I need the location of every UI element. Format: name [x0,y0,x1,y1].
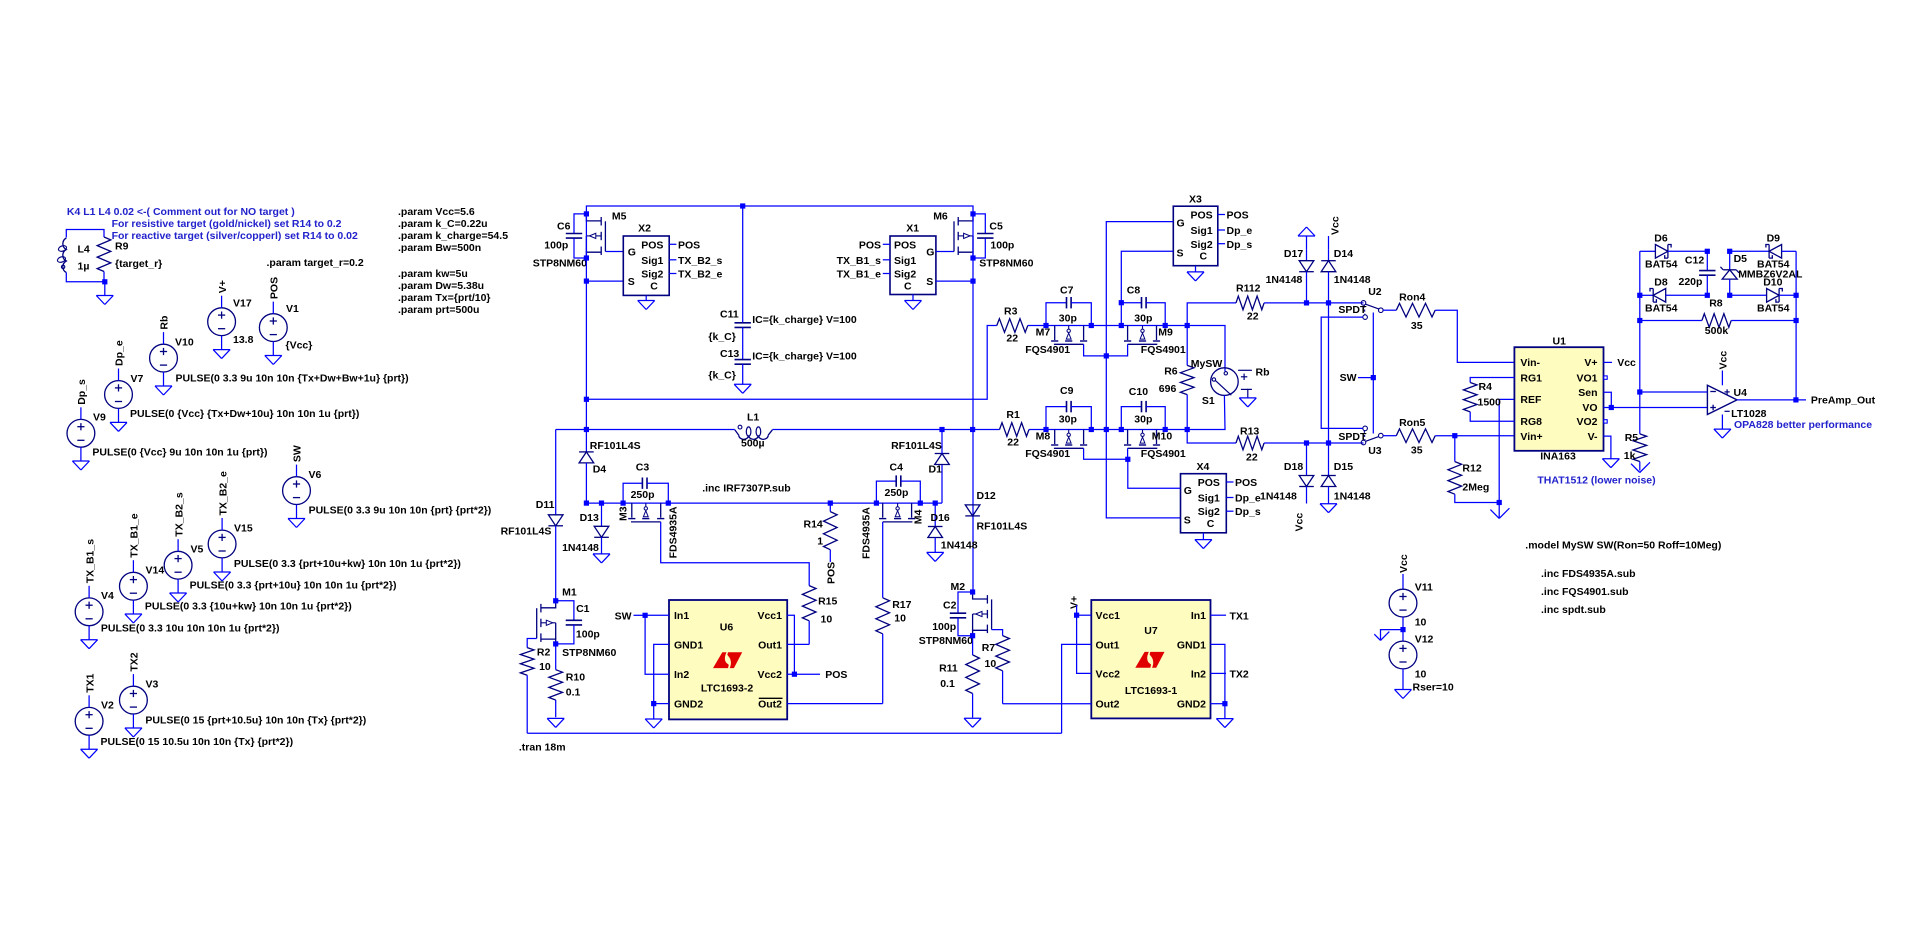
svg-text:Sig1: Sig1 [1198,493,1220,505]
resistor R4 [1463,378,1514,422]
IC U1 INA163 [1514,335,1603,462]
diode D15 [1321,443,1371,504]
svg-text:Vcc: Vcc [1617,357,1636,369]
value label V7 [130,408,359,420]
pin VO2 nc [1604,420,1607,423]
diode D8 [1640,277,1708,315]
svg-text:V9: V9 [93,412,106,424]
node label TX2 [1211,669,1249,681]
IC U7 LTC1693-1 [1091,600,1210,718]
svg-text:100p: 100p [932,621,956,633]
junction R14 [828,501,833,506]
ground V9 [72,461,89,470]
svg-text:22: 22 [1246,451,1258,463]
voltage source V3 [119,652,158,728]
wire X1 G to M6 [936,251,954,253]
svg-text:STP8NM60: STP8NM60 [979,258,1033,270]
svg-text:RF101L4S: RF101L4S [501,525,552,537]
svg-text:V12: V12 [1415,634,1434,646]
svg-text:.inc FQS4901.sub: .inc FQS4901.sub [1541,586,1629,598]
block X4 [1181,461,1234,533]
switch S1 minus terminal [1241,370,1252,398]
svg-text:S: S [628,276,635,288]
diode D13 [562,503,609,554]
inductor L4 [57,238,90,273]
junction right rail R8 [1794,318,1799,323]
diode D4 [579,430,640,504]
svg-text:Ron5: Ron5 [1399,417,1425,429]
svg-text:POS: POS [1235,477,1257,489]
svg-text:V6: V6 [309,469,322,481]
comment: K4 coupling note [67,206,295,218]
diode D11 [501,430,563,601]
svg-text:30p: 30p [1059,413,1077,425]
svg-text:Vin+: Vin+ [1520,431,1542,443]
svg-text:{Vcc}: {Vcc} [286,340,313,352]
svg-text:C: C [1200,251,1208,263]
node label POS under R14 [826,562,838,584]
svg-text:Vin-: Vin- [1520,357,1540,369]
svg-text:R17: R17 [892,599,911,611]
svg-text:V2: V2 [101,700,114,712]
svg-text:SW: SW [292,445,304,462]
svg-text:SW: SW [615,611,632,623]
wire Vcc1-Vcc2 link [787,615,794,674]
transistor M4 [861,503,925,559]
comment OPA828 [1734,419,1872,431]
svg-text:22: 22 [1247,311,1259,323]
svg-text:C6: C6 [557,221,571,233]
svg-text:13.8: 13.8 [233,334,254,346]
svg-text:1N4148: 1N4148 [1266,274,1303,286]
svg-text:D18: D18 [1284,461,1303,473]
svg-text:100p: 100p [990,239,1014,251]
svg-text:10: 10 [894,613,906,625]
junction 973 mainrail [970,427,975,432]
wire rail2 [586,502,942,504]
wire top rail [586,206,973,214]
junction up4 [1163,323,1168,328]
svg-text:X4: X4 [1197,461,1210,473]
junction top rail right [970,211,975,216]
junction X1 S [970,279,975,284]
ground X3 [1187,266,1204,281]
svg-text:D5: D5 [1734,253,1748,265]
capacitor C8 [1121,285,1165,326]
svg-text:M5: M5 [612,211,627,223]
svg-text:PULSE(0 3.3 9u 10n 10n {Tx+Dw+: PULSE(0 3.3 9u 10n 10n {Tx+Dw+Bw+1u} {pr… [176,373,409,385]
svg-text:PULSE(0 15 {prt+10.5u} 10n 10n: PULSE(0 15 {prt+10.5u} 10n 10n {Tx} {prt… [145,715,366,727]
junction D18 [1304,440,1309,445]
ground D16 [927,552,944,561]
value label V2 [101,736,294,748]
svg-text:GND1: GND1 [1177,639,1206,651]
node label POS at X3 [1227,210,1249,222]
junction D14 [1326,300,1331,305]
svg-text:TX_B1_s: TX_B1_s [84,539,96,584]
svg-text:For resistive target (gold/nic: For resistive target (gold/nickel) set R… [112,218,342,230]
wire C13 to ground [742,364,744,384]
voltage source V6 [283,445,322,518]
node label Vcc at U1 [1604,357,1637,369]
junction GND2 U7 [1222,701,1227,706]
node label TX_B2_s [678,255,723,267]
ground V5 [170,593,187,602]
junction M1 drain [553,598,558,603]
wire V+ to Vcc2 U7 [1077,615,1092,673]
svg-text:22: 22 [1007,437,1019,449]
svg-text:G: G [1177,218,1185,230]
junction left rail mid [1637,293,1642,298]
svg-text:0.1: 0.1 [940,678,955,690]
capacitor C9 [1046,385,1091,429]
svg-text:BAT54: BAT54 [1645,259,1678,271]
resistor R17 [876,598,912,704]
wire left net rail [1639,251,1641,392]
junction lo1 [1043,427,1048,432]
wire right vertical 973 [972,214,974,592]
block X1 [883,223,936,295]
ground L4-R9 [96,296,113,305]
wire upper pair rail [1046,325,1226,327]
node label Vcc at U4 [1718,351,1730,386]
svg-text:R2: R2 [537,646,551,658]
svg-text:.param Vcc=5.6: .param Vcc=5.6 [398,206,475,218]
svg-text:0.1: 0.1 [566,687,581,699]
resistor R12 [1448,436,1499,503]
svg-text:S1: S1 [1202,395,1215,407]
svg-text:30p: 30p [1059,313,1077,325]
ground V1 [265,356,282,365]
diode D17 [1266,248,1314,303]
svg-text:OPA828 better performance: OPA828 better performance [1734,419,1872,431]
svg-text:30p: 30p [1134,413,1152,425]
svg-text:BAT54: BAT54 [1757,303,1790,315]
svg-text:C: C [904,280,912,292]
svg-text:V+: V+ [217,280,229,293]
svg-text:M3: M3 [617,506,629,521]
junction C3 left [621,501,626,506]
wire left vertical 586 [585,214,587,430]
resistor R9 [97,237,162,272]
svg-text:In1: In1 [674,610,689,622]
junction D15 [1326,440,1331,445]
wire L4-R9 top [66,230,104,238]
junction C3 right [666,501,671,506]
svg-text:Sen: Sen [1578,387,1597,399]
ground U4 [1714,415,1731,439]
voltage source V15 [208,471,253,572]
junction M6 source [970,255,975,260]
switch S1 plus terminal [1238,370,1252,380]
svg-text:D1: D1 [929,463,943,475]
junction V+ [1074,613,1079,618]
node label Vcc above D14 [1329,216,1342,250]
junction C4 right [918,501,923,506]
svg-text:.inc spdt.sub: .inc spdt.sub [1541,604,1606,616]
svg-text:FDS4935A: FDS4935A [668,506,680,558]
svg-text:FQS4901: FQS4901 [1141,448,1186,460]
svg-text:U2: U2 [1368,286,1382,298]
junction rail2 D4 [584,501,589,506]
pin VO1 nc [1604,376,1607,379]
wire L4-R9 bottom [66,272,105,296]
ground X2 [638,301,655,310]
svg-text:PULSE(0 3.3 {10u+kw} 10n 10n 1: PULSE(0 3.3 {10u+kw} 10n 10n 1u {prt*2}) [145,601,352,613]
comment: resistive target note [112,218,342,230]
svg-text:In1: In1 [1191,610,1206,622]
comment: reactive target note [112,230,358,242]
svg-text:Vcc1: Vcc1 [757,610,782,622]
svg-text:C4: C4 [890,462,904,474]
svg-text:M7: M7 [1036,327,1051,339]
wire U4 out [1737,399,1806,401]
wire rail1 [586,326,996,400]
svg-text:C7: C7 [1060,285,1074,297]
capacitor C5 [973,214,1034,270]
svg-text:250p: 250p [885,487,909,499]
svg-text:D8: D8 [1654,277,1668,289]
directive .inc spdt [1541,604,1606,616]
node label Rb at S1 [1256,366,1270,378]
svg-text:TX_B2_e: TX_B2_e [217,471,229,516]
value label V10 [176,373,409,385]
svg-text:Vcc1: Vcc1 [1096,610,1121,622]
svg-text:D6: D6 [1654,233,1668,245]
svg-text:GND2: GND2 [674,699,703,711]
junction 586 mainrail [584,427,589,432]
node label POS at X2 [678,239,700,251]
zener D5 [1720,251,1803,295]
ground V12 [1395,690,1412,699]
svg-text:Sig1: Sig1 [641,255,663,267]
ground S1 [1239,398,1256,407]
svg-text:U6: U6 [720,622,734,634]
ground V7 [110,422,127,431]
junction X4 G [1125,457,1130,462]
capacitor C6 [533,214,587,270]
svg-text:D9: D9 [1767,233,1781,245]
wire Vcc2 to POS [794,673,820,675]
comment THAT1512 [1537,474,1655,486]
svg-text:VO2: VO2 [1576,416,1597,428]
svg-text:D16: D16 [931,512,950,524]
svg-text:35: 35 [1411,445,1423,457]
junction right rail mid [1794,293,1799,298]
resistor R10 [549,644,585,717]
svg-text:POS: POS [678,239,700,251]
resistor R2 [520,639,551,734]
wire V12 ground [1402,669,1404,690]
svg-text:10: 10 [985,658,997,670]
svg-text:M1: M1 [562,587,577,599]
svg-text:M8: M8 [1036,431,1051,443]
svg-text:1k: 1k [1624,450,1636,462]
svg-text:250p: 250p [631,489,655,501]
svg-text:R14: R14 [804,519,823,531]
svg-text:G: G [628,247,636,259]
ground V2 [81,749,98,758]
wire X3 G long vertical [1106,222,1180,518]
svg-text:{target_r}: {target_r} [115,258,162,270]
svg-text:RF101L4S: RF101L4S [891,440,942,452]
svg-text:.param kw=5u: .param kw=5u [398,268,468,280]
svg-text:Dp_e: Dp_e [114,340,126,366]
svg-text:R5: R5 [1625,432,1639,444]
svg-text:1N4148: 1N4148 [1334,491,1371,503]
junction mid C12 [1705,293,1710,298]
capacitor C10 [1121,386,1165,429]
svg-text:10: 10 [1415,669,1427,681]
junction Sen VO [1609,405,1614,410]
svg-text:In2: In2 [1191,668,1206,680]
switch U3 SPDT [1338,426,1383,457]
svg-text:POS: POS [641,239,663,251]
diode D16 [928,503,978,552]
svg-text:R112: R112 [1236,282,1261,294]
ground V14 [125,614,142,623]
wire right net rail [1795,251,1797,400]
resistor R5 [1624,392,1647,471]
wire Out1 to R15 [787,643,809,645]
capacitor C13 [708,348,856,381]
svg-text:V17: V17 [233,298,252,310]
ground X4 [1195,533,1212,549]
junction up2 [1089,323,1094,328]
voltage source V14 [119,513,164,614]
svg-text:FQS4901: FQS4901 [1141,344,1186,356]
wire X2 S [585,280,623,282]
svg-text:{k_C}: {k_C} [708,331,735,343]
junction X2 S [584,279,589,284]
svg-text:C5: C5 [989,221,1003,233]
value label V14 [145,601,352,613]
svg-text:For reactive target (silver/co: For reactive target (silver/copperl) set… [112,230,358,242]
node label TX1 [1211,610,1249,622]
svg-text:M9: M9 [1158,327,1173,339]
svg-text:C1: C1 [576,603,590,615]
svg-text:X1: X1 [906,223,919,235]
svg-text:C12: C12 [1685,255,1704,267]
svg-text:X2: X2 [638,223,651,235]
svg-text:V+: V+ [1069,596,1081,609]
svg-text:.param k_charge=54.5: .param k_charge=54.5 [398,230,508,242]
svg-text:MMBZ6V2AL: MMBZ6V2AL [1738,269,1803,281]
svg-text:30p: 30p [1134,313,1152,325]
svg-text:M2: M2 [951,581,966,593]
svg-text:R11: R11 [939,662,958,674]
svg-text:V3: V3 [146,679,159,691]
directive .param block 1 [398,206,508,254]
capacitor C1 [556,601,617,659]
wire In1 [645,614,669,616]
svg-text:TX2: TX2 [1230,669,1249,681]
junction top rail left [584,211,589,216]
svg-text:M10: M10 [1152,431,1173,443]
resistor R3 [997,306,1046,345]
svg-text:C13: C13 [720,348,739,360]
svg-text:Out1: Out1 [758,639,782,651]
value label V6 [309,505,492,517]
svg-text:C8: C8 [1127,285,1141,297]
voltage source V5 [164,492,203,593]
junction M1 source [553,641,558,646]
svg-text:Vcc: Vcc [1330,216,1342,235]
junction M2 source [970,633,975,638]
ground V15 [214,572,231,581]
wire U4 minus input [1640,391,1708,393]
svg-text:PULSE(0 3.3 10u 10n 10n 1u {pr: PULSE(0 3.3 10u 10n 10n 1u {prt*2}) [101,623,280,635]
junction X3 S C8 [1119,300,1124,305]
svg-text:100p: 100p [544,239,568,251]
svg-text:SW: SW [1340,372,1357,384]
junction L4-R9 [102,279,107,284]
svg-text:S: S [1184,515,1191,527]
capacitor C3 [623,462,668,504]
svg-text:22: 22 [1006,333,1018,345]
svg-text:R15: R15 [818,596,837,608]
svg-text:M6: M6 [933,211,948,223]
junction mid D5 [1727,293,1732,298]
value label V3 [145,715,366,727]
svg-text:RG1: RG1 [1520,372,1542,384]
junction 586 rail1 [584,397,589,402]
svg-text:1µ: 1µ [78,261,90,273]
diode D6 [1640,233,1708,271]
ground arrow REF [1490,503,1509,519]
svg-text:R7: R7 [982,642,996,654]
svg-text:Dp_s: Dp_s [1235,506,1261,518]
junction X3G mainrail [1104,427,1109,432]
svg-text:TX_B2_s: TX_B2_s [678,255,723,267]
wire D-column link [1328,303,1330,443]
svg-text:Vcc: Vcc [1398,554,1410,573]
wire GND1 loop [654,644,669,703]
node label Vcc at V11 [1398,554,1410,589]
svg-text:500µ: 500µ [741,438,765,450]
junction top D5 [1727,249,1732,254]
svg-text:R12: R12 [1462,463,1481,475]
voltage source V1 [259,277,312,356]
svg-text:V15: V15 [234,523,253,535]
ground inverted above D17 [1298,227,1315,250]
svg-text:1N4148: 1N4148 [941,540,978,552]
svg-text:THAT1512 (lower noise): THAT1512 (lower noise) [1537,474,1655,486]
svg-text:Out2: Out2 [758,699,782,711]
junction GND2 [651,701,656,706]
ground V3 [125,728,142,737]
svg-text:IC={k_charge} V=100: IC={k_charge} V=100 [752,351,857,363]
wire M8 M10 gates [1084,448,1128,459]
node label Dp_s at X4 [1235,506,1261,518]
capacitor C11 [708,308,856,343]
svg-text:R8: R8 [1709,298,1723,310]
svg-text:PULSE(0 3.3 {prt+10u} 10n 10n: PULSE(0 3.3 {prt+10u} 10n 10n 1u {prt*2}… [190,580,397,592]
svg-text:Rser=10: Rser=10 [1413,681,1454,693]
svg-text:POS: POS [894,239,916,251]
svg-text:V+: V+ [1584,357,1597,369]
capacitor C2 [919,592,973,647]
svg-text:.param Bw=500n: .param Bw=500n [398,242,481,254]
svg-text:V10: V10 [175,337,194,349]
svg-text:Rb: Rb [1256,366,1270,378]
svg-text:STP8NM60: STP8NM60 [562,647,616,659]
resistor R7 [982,630,1010,704]
junction up1 [1043,323,1048,328]
block X3 [1173,194,1225,266]
ground D13 [593,554,610,563]
svg-text:M4: M4 [912,510,924,525]
